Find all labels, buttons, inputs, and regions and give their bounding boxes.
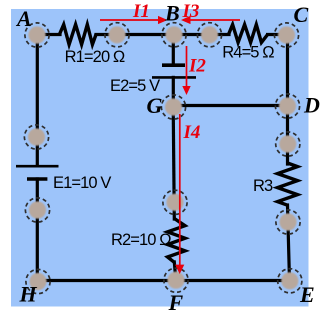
svg-text:R4=5 Ω: R4=5 Ω [222,44,274,62]
node E [278,269,302,293]
resistor R3 [278,163,298,205]
wire bottom H to E [38,279,291,282]
svg-text:E1=10 V: E1=10 V [53,174,111,192]
svg-text:I3: I3 [182,1,200,22]
node on wire A-E1 [24,125,48,149]
wire top A to R1 [37,33,60,36]
resistor R4 [229,25,268,43]
node B [162,23,186,47]
wire battery E2 down to G [172,77,175,107]
resistor R2 [168,219,186,263]
resistor R1 [59,25,96,45]
svg-text:F: F [168,290,184,315]
wire G down to R2 [173,107,174,219]
svg-text:B: B [164,1,180,26]
node F [164,268,188,292]
svg-text:E: E [299,282,315,307]
svg-text:I2: I2 [188,56,206,77]
battery E1 [16,166,59,179]
wire right C down to R3 [286,35,289,165]
current arrow I4 [175,114,184,274]
node D [275,94,299,118]
node A [25,23,49,47]
current arrow I2 [182,46,190,95]
wire left battery E1 down to H [36,179,39,281]
node on wire D-R3 [276,132,300,156]
node on wire B-C [197,23,221,47]
wire top R1 to R4 through B [96,33,229,36]
svg-text:R1=20 Ω: R1=20 Ω [65,48,125,66]
battery E2 [152,65,196,77]
current arrow I1 [100,16,168,24]
node C [274,23,298,47]
svg-text:C: C [294,2,309,27]
svg-text:A: A [15,6,32,31]
wire R2 down to F [174,262,176,280]
wire top R4 to C [268,33,287,36]
node G [161,95,185,119]
node H [26,269,50,293]
wire right R3 down to E [288,205,290,281]
svg-text:R3: R3 [253,177,273,195]
current arrow I3 [181,16,240,24]
svg-text:G: G [147,93,163,118]
wire left A down to battery E1 [36,35,39,164]
node on wire A-B [105,23,129,47]
node on wire E1-H [25,198,49,222]
wire B down to battery E2 [172,35,175,64]
node on wire G-R2 [163,190,187,214]
svg-text:H: H [19,282,38,307]
svg-text:D: D [303,93,320,118]
svg-text:I4: I4 [183,122,201,143]
wire G to D [173,104,288,107]
svg-text:I1: I1 [132,1,150,22]
node on wire R3-E [276,210,300,234]
svg-text:R2=10 Ω: R2=10 Ω [111,231,171,249]
